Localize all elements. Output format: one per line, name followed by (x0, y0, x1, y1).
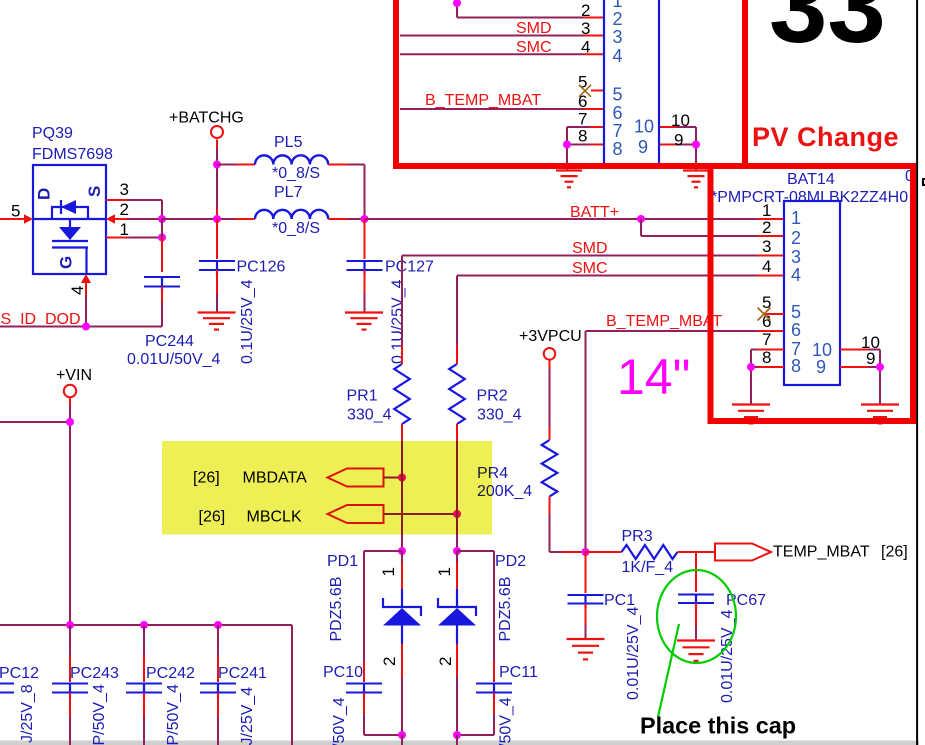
transistor PQ39 FDMS7698 body (33, 165, 106, 274)
svg-text:+3VPCU: +3VPCU (519, 328, 582, 345)
svg-text:4: 4 (613, 46, 623, 66)
svg-text:3: 3 (762, 237, 771, 256)
wire B_TEMP_MBAT to top connector pin 6 (400, 108, 584, 110)
capacitor PC243 (69, 625, 71, 655)
wire +3VPCU down (549, 360, 551, 369)
svg-text:1: 1 (435, 567, 454, 576)
wire SMD to top connector pin 3 (400, 35, 584, 37)
svg-text:PR3: PR3 (622, 528, 653, 545)
sheet zone letter fragment (clipped) (922, 179, 924, 186)
svg-text:8: 8 (578, 127, 587, 146)
svg-text:1K/F_4: 1K/F_4 (622, 559, 674, 576)
svg-text:4: 4 (791, 265, 801, 285)
svg-text:SMC: SMC (572, 260, 608, 277)
svg-text:PC241: PC241 (218, 665, 267, 682)
svg-text:BAT14: BAT14 (787, 171, 835, 188)
resistor PR3 (586, 551, 622, 553)
svg-text:PC243: PC243 (70, 665, 119, 682)
svg-text:8: 8 (791, 356, 801, 376)
BAT14 pin 5 stub with no-connect X (765, 313, 784, 315)
inductor PL5 (255, 155, 328, 164)
wire PL5 to corner (328, 164, 348, 166)
svg-text:8: 8 (762, 348, 771, 367)
svg-text:PR1: PR1 (347, 388, 378, 405)
svg-text:8: 8 (613, 139, 623, 159)
pin 7 stub (567, 126, 590, 128)
svg-text:FDMS7698: FDMS7698 (32, 146, 113, 163)
ground (top connector right) (683, 169, 709, 171)
svg-text:S: S (85, 186, 104, 197)
wire BATT+ main (365, 218, 758, 220)
pin 8 stub (567, 144, 590, 146)
bottom gray scrollbar strip (0, 741, 919, 745)
svg-text:6: 6 (791, 320, 801, 340)
wire +BATCHG down (216, 139, 218, 148)
svg-text:3: 3 (791, 247, 801, 267)
inductor PL7 (255, 210, 328, 219)
svg-text:PC12: PC12 (0, 665, 39, 682)
capacitor PC1 (585, 552, 587, 593)
svg-text:2: 2 (762, 218, 771, 237)
gate bar (52, 246, 88, 248)
svg-text:Place this cap: Place this cap (640, 713, 796, 739)
svg-text:P/50V_4: P/50V_4 (165, 684, 182, 745)
capacitor PC10 (364, 550, 402, 552)
svg-text:4: 4 (581, 38, 590, 57)
wire: BAT14 pins 10-9 tie to ground (879, 350, 881, 368)
svg-text:+BATCHG: +BATCHG (169, 110, 244, 127)
svg-text:10: 10 (671, 111, 690, 130)
svg-text:2: 2 (120, 200, 129, 219)
node: bottom of PD2 (453, 731, 461, 739)
ground under PC126 (198, 311, 236, 313)
wire MBDATA (384, 477, 403, 479)
body diode (60, 200, 62, 214)
node: top of PD2 (453, 547, 461, 555)
capacitor PC242 (143, 625, 145, 655)
bottom bus wire (0, 624, 292, 626)
svg-text:J/25V_8: J/25V_8 (19, 684, 36, 743)
svg-text:B_TEMP_MBAT: B_TEMP_MBAT (425, 92, 541, 109)
ground (BAT14 right) (861, 403, 899, 405)
BAT14 pin 9 stub (840, 366, 869, 368)
zener diode PD2 PDZ5.6B (456, 551, 458, 562)
svg-text:9: 9 (866, 349, 875, 368)
capacitor PC241 (217, 625, 219, 655)
capacitor PC67 (695, 552, 697, 592)
wire MBCLK (384, 513, 458, 515)
red box around BAT14 (711, 166, 914, 421)
svg-text:SMD: SMD (516, 20, 552, 37)
top connector body (clipped) (604, 0, 659, 165)
svg-text:PC244: PC244 (145, 333, 194, 350)
wire: BAT14 pins 7-8 tie to ground (750, 350, 752, 368)
svg-text:PC242: PC242 (146, 665, 195, 682)
svg-text:6: 6 (578, 92, 587, 111)
svg-text:330_4: 330_4 (477, 407, 522, 424)
green callout line (658, 624, 679, 717)
svg-text:4: 4 (762, 257, 771, 276)
svg-text:*PMPCRT-08MLBK2ZZ4H0: *PMPCRT-08MLBK2ZZ4H0 (711, 189, 908, 206)
node: top of PD1 (398, 547, 406, 555)
capacitor PC127 (364, 219, 366, 259)
svg-text:PC1: PC1 (604, 592, 635, 609)
svg-text:2: 2 (436, 657, 455, 666)
off-page connector TEMP_MBAT (715, 544, 771, 561)
svg-text:33: 33 (769, 0, 886, 65)
wire pin 3 to node (106, 199, 127, 201)
svg-text:PC11: PC11 (499, 664, 538, 681)
resistor PR1 (401, 345, 403, 364)
svg-text:PR2: PR2 (477, 388, 508, 405)
svg-text:[26]: [26] (881, 544, 908, 561)
svg-text:*0_8/S: *0_8/S (272, 220, 320, 237)
svg-text:0.01U/50V_4: 0.01U/50V_4 (127, 351, 221, 368)
svg-text:PC127: PC127 (385, 259, 434, 276)
capacitor PC11 (457, 550, 494, 552)
svg-text:S_ID_DOD: S_ID_DOD (1, 311, 81, 328)
green highlight ellipse around PC67 (657, 570, 736, 663)
svg-text:9: 9 (638, 137, 648, 157)
resistor PR4 (542, 440, 558, 497)
wire from left edge joining +VIN line (0, 421, 70, 423)
svg-text:2: 2 (791, 228, 801, 248)
pin 2 arrow into source (106, 214, 115, 224)
svg-text:TEMP_MBAT: TEMP_MBAT (773, 544, 870, 561)
svg-text:0.1U/25V_4: 0.1U/25V_4 (390, 279, 407, 364)
svg-text:3: 3 (613, 27, 623, 47)
channel bar (52, 240, 88, 242)
svg-text:PD2: PD2 (495, 553, 526, 570)
node: bottom of PD1 (398, 731, 406, 739)
svg-text:6: 6 (613, 103, 623, 123)
svg-text:P/50V_4: P/50V_4 (91, 684, 108, 745)
svg-text:PL5: PL5 (274, 134, 303, 151)
BAT14 pin 10 stub (840, 349, 869, 351)
connector BAT14 body (784, 201, 840, 385)
svg-text:14": 14" (617, 349, 690, 405)
svg-text:2: 2 (380, 657, 399, 666)
svg-text:PD1: PD1 (327, 553, 358, 570)
svg-text:PV Change: PV Change (752, 122, 899, 152)
ground (top connector left) (556, 169, 582, 171)
wire B_TEMP_MBAT (586, 330, 758, 332)
pin 5 stub with no-connect X (591, 90, 604, 92)
svg-text:3: 3 (120, 180, 129, 199)
svg-text:3: 3 (581, 19, 590, 38)
wire: net to top connector pin 2 (456, 3, 458, 18)
wire: pins 10-9 tie to ground (695, 127, 697, 145)
svg-text:9: 9 (674, 131, 683, 150)
svg-text:7: 7 (613, 121, 623, 141)
svg-text:SMD: SMD (572, 240, 608, 257)
wire PL7 to main BATT+ line (328, 218, 348, 220)
svg-text:5: 5 (791, 302, 801, 322)
svg-text:1: 1 (379, 567, 398, 576)
svg-text:5: 5 (11, 202, 20, 221)
sheet border line right (916, 0, 918, 745)
svg-text:PDZ5.6B: PDZ5.6B (497, 577, 514, 642)
capacitor PC244 (161, 238, 163, 273)
svg-text:B_TEMP_MBAT: B_TEMP_MBAT (606, 313, 722, 330)
resistor PR2 (456, 345, 458, 364)
off-page connector MBCLK (328, 505, 384, 523)
svg-text:5: 5 (613, 85, 623, 105)
svg-text:G: G (57, 256, 76, 269)
ground (BAT14 left) (732, 403, 770, 405)
svg-text:PDZ5.6B: PDZ5.6B (328, 577, 345, 642)
svg-text:0.01U/25V_4: 0.01U/25V_4 (625, 606, 642, 700)
gate lead (85, 248, 87, 274)
node junction top edge (453, 0, 461, 7)
svg-text:PL7: PL7 (274, 184, 303, 201)
wire S_ID_DOD (0, 326, 162, 328)
svg-text:1: 1 (120, 220, 129, 239)
capacitor PC126 (216, 219, 218, 259)
svg-text:PQ39: PQ39 (32, 125, 73, 142)
S-D rail (33, 218, 106, 220)
pin 10 stub (right) (659, 126, 677, 128)
svg-text:+VIN: +VIN (56, 367, 92, 384)
svg-text:D: D (35, 188, 54, 200)
wire SMD net (402, 255, 757, 257)
svg-text:J/25V_4: J/25V_4 (239, 687, 256, 745)
svg-text:330_4: 330_4 (347, 407, 392, 424)
mosfet channel arrow (69, 219, 71, 227)
off-page connector MBDATA (328, 469, 384, 487)
pin 4 arrow at gate bottom (81, 274, 91, 283)
svg-text:4: 4 (68, 286, 87, 295)
svg-text:0.01U/25V_4: 0.01U/25V_4 (719, 609, 736, 703)
BAT14 pin 8 stub (751, 366, 757, 368)
svg-text:PC10: PC10 (323, 664, 363, 681)
wire +VIN down to bus (69, 397, 71, 405)
wire SMC net (457, 275, 757, 277)
svg-text:1: 1 (791, 208, 801, 228)
svg-text:/50V_4: /50V_4 (498, 697, 515, 745)
ground under PC67 (677, 639, 715, 641)
ground under PC127 (345, 311, 383, 313)
zener diode PD1 PDZ5.6B (401, 551, 403, 562)
wire to PL5 (217, 164, 236, 166)
svg-text:9: 9 (816, 357, 826, 377)
svg-text:/50V_4: /50V_4 (331, 697, 348, 745)
wire pin 2 stub (115, 218, 127, 220)
svg-text:10: 10 (634, 117, 654, 137)
ground under PC1 (567, 638, 605, 640)
svg-text:PC126: PC126 (237, 259, 286, 276)
wire to PL7 (162, 218, 235, 220)
wire: pins 7-8 tie to ground (566, 127, 568, 145)
wire branch to BAT14 pin 2 (640, 219, 642, 236)
pin 5 input wire with arrow (0, 218, 25, 220)
wire pin 1 to node (106, 237, 127, 239)
svg-text:7: 7 (762, 330, 771, 349)
svg-text:0.1U/25V_4: 0.1U/25V_4 (239, 279, 256, 364)
yellow highlight over MBDATA/MBCLK area (162, 441, 492, 535)
red box around top connector (396, 0, 745, 166)
svg-text:2: 2 (613, 9, 623, 29)
body diode loop (52, 207, 88, 219)
svg-text:*0_8/S: *0_8/S (272, 165, 320, 182)
BAT14 pin 7 stub (751, 349, 757, 351)
svg-text:2: 2 (581, 1, 590, 20)
wire SMC to top connector pin 4 (400, 53, 584, 55)
wire pin 4 down to S_ID_DOD (85, 283, 87, 295)
pin 9 stub (right) (659, 144, 677, 146)
